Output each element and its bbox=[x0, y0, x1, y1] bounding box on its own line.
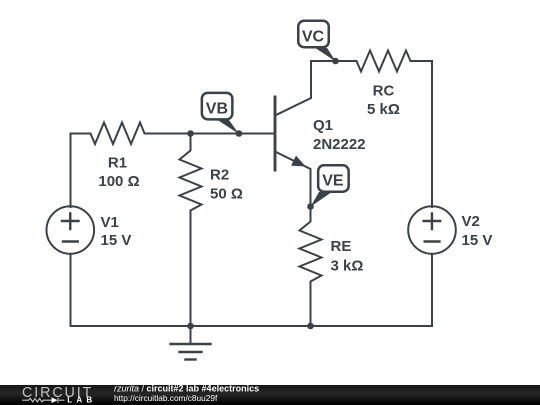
svg-text:100 Ω: 100 Ω bbox=[98, 173, 139, 190]
svg-text:V1: V1 bbox=[101, 214, 119, 231]
svg-text:VE: VE bbox=[322, 173, 344, 190]
svg-text:15 V: 15 V bbox=[101, 232, 132, 249]
svg-text:2N2222: 2N2222 bbox=[313, 136, 366, 153]
svg-text:3 kΩ: 3 kΩ bbox=[331, 258, 364, 275]
svg-text:V2: V2 bbox=[462, 213, 480, 230]
svg-text:R1: R1 bbox=[108, 155, 127, 172]
svg-text:5 kΩ: 5 kΩ bbox=[367, 101, 400, 118]
svg-text:R2: R2 bbox=[210, 166, 229, 183]
svg-text:http://circuitlab.com/c8uu29f: http://circuitlab.com/c8uu29f bbox=[114, 393, 218, 403]
svg-text:RE: RE bbox=[331, 238, 352, 255]
svg-text:RC: RC bbox=[373, 83, 395, 100]
svg-text:LAB: LAB bbox=[67, 396, 96, 405]
svg-text:Q1: Q1 bbox=[313, 117, 333, 134]
svg-text:15 V: 15 V bbox=[462, 232, 493, 249]
svg-text:VB: VB bbox=[206, 101, 228, 118]
svg-text:50 Ω: 50 Ω bbox=[210, 185, 243, 202]
svg-text:VC: VC bbox=[302, 29, 325, 46]
svg-text:rzurita / circuit#2 lab #4elec: rzurita / circuit#2 lab #4electronics bbox=[114, 384, 259, 394]
